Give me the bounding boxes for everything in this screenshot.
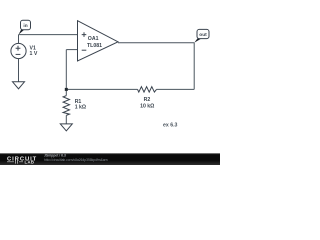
svg-text:LAB: LAB [25, 160, 35, 165]
svg-text:in: in [23, 23, 27, 29]
wire V1 bottom to ground [18, 59, 20, 82]
wire inverting input horizontal [66, 49, 77, 51]
watermark logo capacitor + LAB [7, 160, 23, 164]
op-amp plus marker [82, 32, 87, 37]
wire feedback bottom right segment [157, 88, 195, 90]
wire inverting input vertical [65, 50, 67, 90]
svg-text:OA1: OA1 [88, 36, 99, 42]
wire R1 top lead [65, 89, 67, 95]
resistor R2 [138, 87, 157, 92]
op-amp OA1 [78, 21, 119, 61]
op-amp minus marker [82, 49, 87, 51]
wire V1 top lead [18, 35, 20, 44]
svg-text:TL081: TL081 [87, 43, 102, 49]
wire feedback bottom left segment [66, 88, 137, 90]
node label out : box [197, 29, 209, 38]
wire noninverting input [19, 34, 78, 36]
svg-text:R2: R2 [144, 97, 151, 103]
svg-text:ex 6.3: ex 6.3 [163, 122, 178, 128]
junction node (feedback/R1) [65, 88, 68, 91]
wire output vertical right [193, 43, 195, 90]
node label in : tail [19, 29, 25, 34]
ground (R1) [60, 124, 72, 131]
resistor R1 [63, 96, 69, 116]
ground (V1) [13, 82, 25, 89]
wire R1 bottom lead [65, 115, 67, 124]
node label in : box [21, 20, 31, 29]
svg-text:htto://circuitlab.corn/c8a264p: htto://circuitlab.corn/c8a264p358kpdfm&a… [44, 158, 108, 162]
wire output horizontal [118, 42, 194, 44]
svg-text:10 kΩ: 10 kΩ [140, 103, 154, 109]
svg-text:out: out [199, 32, 207, 38]
svg-text:1 V: 1 V [30, 51, 38, 57]
svg-text:1 kΩ: 1 kΩ [75, 104, 86, 110]
node label out : tail [194, 38, 201, 43]
voltage source V1 [11, 43, 26, 58]
